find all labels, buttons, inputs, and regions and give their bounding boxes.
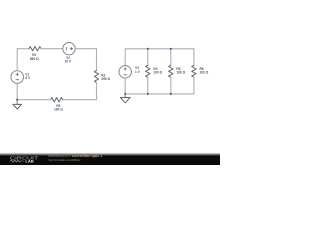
svg-text:100 Ω: 100 Ω [200,71,209,75]
wire right circuit bottom [125,93,194,95]
wire bottom-left segment [17,99,50,101]
voltage source V3 [119,66,141,78]
svg-text:390 Ω: 390 Ω [101,77,110,81]
svg-text:10 V: 10 V [65,60,72,64]
svg-text:100 Ω: 100 Ω [54,108,63,112]
svg-text:100 Ω: 100 Ω [176,71,185,75]
wire bottom-right segment [63,99,97,101]
voltage source V1 [11,71,31,84]
node junction R5 top [170,48,172,50]
svg-text:5 V: 5 V [25,76,31,80]
wire R1 to V2 [41,48,63,50]
wire R5 lower [170,77,172,94]
svg-text:http://circuitlab.com/c68b4tv: http://circuitlab.com/c68b4tv [48,158,80,162]
node junction right ground [124,93,126,95]
resistor R6 [192,65,209,77]
wire left side lower [16,83,18,99]
ground right [120,94,130,103]
node junction R4 top [147,48,149,50]
wire V2 to top-right corner [75,48,96,50]
resistor R3 [51,98,64,112]
resistor R5 [169,65,186,77]
svg-text:CIRCUIT: CIRCUIT [10,155,39,160]
svg-text:1 V: 1 V [135,70,141,74]
wire R4 upper [147,49,149,66]
footer bar [0,156,220,165]
wire left circuit top-left segment [17,48,29,50]
wire right side upper [96,49,98,71]
resistor R4 [146,65,163,77]
voltage source V2 [63,43,75,64]
node junction left ground [16,99,18,101]
svg-text:560 Ω: 560 Ω [30,57,39,61]
wire V3 lower [124,78,126,94]
svg-text:LAB: LAB [25,159,33,164]
wire left side upper [16,49,18,71]
node junction R5 bottom [170,93,172,95]
wire R6 lower [193,77,195,94]
resistor R1 [29,47,41,61]
CircuitLab logo wordmark [10,155,39,163]
wire V3 upper [124,49,126,66]
svg-text:100 Ω: 100 Ω [153,71,162,75]
footer bar gradient edge [0,150,220,156]
wire right side lower [96,83,98,100]
node junction R4 bottom [147,93,149,95]
wire R4 lower [147,77,149,94]
wire R6 upper [193,49,195,66]
ground left [13,100,21,109]
resistor R2 [94,71,110,83]
wire R5 upper [170,49,172,66]
wire right circuit top [125,48,194,50]
